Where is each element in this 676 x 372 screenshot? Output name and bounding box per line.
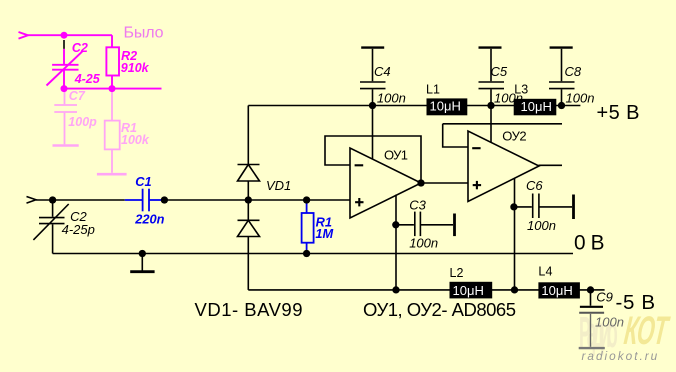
svg-text:0 В: 0 В bbox=[574, 232, 605, 255]
svg-text:ОУ2: ОУ2 bbox=[502, 129, 526, 144]
svg-text:VD1- BAV99: VD1- BAV99 bbox=[195, 299, 303, 320]
svg-text:radiokot.ru: radiokot.ru bbox=[582, 349, 660, 363]
svg-text:C1: C1 bbox=[135, 174, 151, 189]
svg-text:100n: 100n bbox=[527, 218, 556, 233]
svg-text:C9: C9 bbox=[596, 290, 613, 305]
svg-text:+5 В: +5 В bbox=[597, 102, 640, 124]
svg-text:L4: L4 bbox=[538, 264, 552, 278]
svg-text:L3: L3 bbox=[514, 82, 528, 96]
svg-text:Было: Было bbox=[124, 24, 164, 41]
svg-text:VD1: VD1 bbox=[266, 178, 291, 193]
svg-text:L1: L1 bbox=[426, 82, 440, 96]
svg-text:C2: C2 bbox=[72, 41, 88, 55]
svg-text:L2: L2 bbox=[450, 266, 464, 280]
svg-text:ОУ1: ОУ1 bbox=[384, 147, 408, 162]
svg-text:-5 В: -5 В bbox=[616, 291, 656, 314]
svg-text:C8: C8 bbox=[565, 64, 582, 79]
svg-text:C6: C6 bbox=[526, 178, 543, 193]
svg-text:4-25: 4-25 bbox=[74, 72, 101, 86]
svg-text:1M: 1M bbox=[315, 226, 333, 241]
svg-text:4-25p: 4-25p bbox=[62, 222, 95, 237]
svg-text:220n: 220n bbox=[134, 212, 164, 227]
svg-text:100n: 100n bbox=[566, 91, 595, 106]
svg-text:ОУ1, ОУ2- AD8065: ОУ1, ОУ2- AD8065 bbox=[363, 299, 516, 320]
svg-text:100k: 100k bbox=[121, 133, 150, 147]
svg-text:10μH: 10μH bbox=[541, 283, 572, 298]
svg-text:10μH: 10μH bbox=[453, 283, 484, 298]
svg-text:100p: 100p bbox=[68, 115, 97, 129]
svg-text:100n: 100n bbox=[595, 315, 624, 330]
svg-text:10μH: 10μH bbox=[430, 99, 461, 114]
svg-text:C3: C3 bbox=[409, 197, 426, 212]
svg-text:10μH: 10μH bbox=[521, 99, 552, 114]
svg-text:100n: 100n bbox=[409, 236, 438, 251]
svg-text:100n: 100n bbox=[377, 91, 406, 106]
svg-text:C4: C4 bbox=[374, 64, 391, 79]
svg-text:C5: C5 bbox=[491, 64, 508, 79]
svg-text:910k: 910k bbox=[121, 61, 150, 75]
svg-text:C7: C7 bbox=[69, 89, 86, 103]
